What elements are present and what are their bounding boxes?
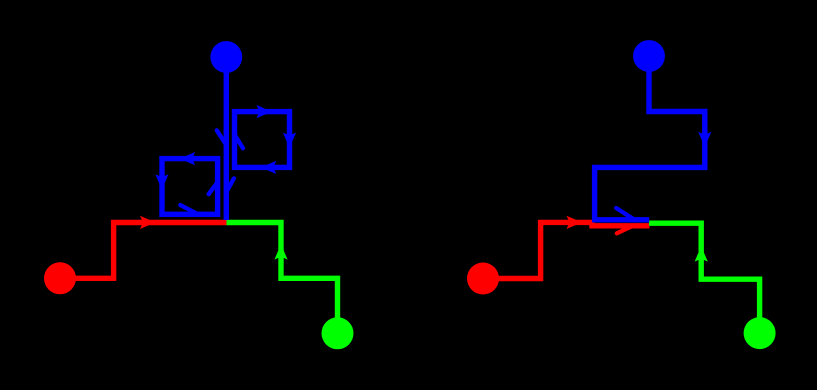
up harpoon on lower square right edge (209, 182, 218, 194)
lower square loop (left) (162, 159, 218, 215)
arrow on red path (left) (140, 216, 155, 229)
blue start point (left) (210, 41, 242, 73)
left arrow on upper square bottom edge (261, 161, 276, 174)
up arrow on green vertical (left) (274, 244, 287, 259)
left arrow on lower square top edge (180, 152, 195, 165)
red start point (right) (467, 263, 499, 295)
blue path h (right) (595, 56, 705, 220)
green path g (left) (227, 223, 338, 334)
down arrow on blue right vertical (698, 132, 711, 147)
red path f (left) (60, 223, 227, 279)
arrow on red path (right) (567, 216, 582, 229)
right arrow on upper square top edge (257, 105, 272, 118)
down arrow on upper square right edge (283, 133, 296, 148)
green end point (left) (322, 317, 354, 349)
right harpoon on blue overlap segment (616, 208, 633, 219)
right harpoon on lower square bottom edge (180, 205, 197, 214)
green end point (right) (744, 317, 776, 349)
green path g (right) (649, 223, 760, 333)
up arrow on green vertical (right) (695, 246, 708, 261)
down arrow on lower square left edge (155, 174, 168, 189)
right harpoon on red overlap segment (617, 226, 632, 233)
down harpoon on line A beside lower square (226, 178, 234, 192)
blue main vertical line A (left) (224, 57, 229, 220)
upper square loop (left) (235, 112, 290, 168)
red path f (right) (483, 222, 650, 278)
blue start point (right) (633, 40, 665, 72)
down harpoon on line A beside upper square (217, 130, 226, 145)
red start point (left) (44, 262, 76, 294)
up harpoon on upper square left edge (235, 135, 243, 149)
